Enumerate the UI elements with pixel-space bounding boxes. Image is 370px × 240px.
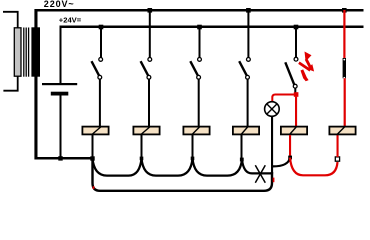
connector square on terminal6 lower lead bbox=[335, 157, 339, 161]
switch S3 blade (open) bbox=[190, 61, 198, 76]
wire secondary lead top bbox=[34, 9, 37, 28]
junction dot branch5 on +24V rail bbox=[294, 25, 299, 30]
terminal block X3 bbox=[183, 127, 209, 135]
wire +24V rail bbox=[60, 26, 364, 29]
wire red drooping link terminal5-terminal6 bbox=[290, 158, 338, 176]
wire bottom DC common rail bbox=[35, 157, 94, 160]
wire terminal 2 lower bbox=[141, 135, 143, 158]
wire switch S5 stub to red node bbox=[294, 88, 296, 93]
wire branch4 upper (crosses +24V rail) bbox=[247, 10, 249, 57]
wire terminal 5 lower (red) bbox=[289, 135, 291, 157]
wire battery bottom lead bbox=[60, 96, 62, 159]
switch S6 top contact bbox=[343, 59, 345, 61]
transformer T1 secondary winding bbox=[31, 27, 40, 76]
switch S5 bottom contact bbox=[293, 84, 297, 88]
switch S1 blade (open) bbox=[92, 61, 100, 76]
wire long bottom return (terminal1 junction to lamp) bbox=[93, 159, 273, 191]
wire drooping link terminal2-terminal3 bbox=[142, 158, 193, 176]
wire switch S3 to terminal 3 bbox=[198, 79, 200, 126]
break mark X on broken wire bbox=[255, 165, 265, 183]
junction dot branch1 on +24V rail bbox=[99, 25, 104, 30]
switch S2 bottom contact bbox=[147, 75, 151, 79]
stray red mark on lamp lower lead bbox=[273, 178, 275, 183]
svg-text:220V~: 220V~ bbox=[44, 0, 75, 9]
wire branch1 upper bbox=[100, 27, 102, 57]
junction dot terminal3 split bbox=[191, 157, 195, 161]
wire 220V rail bbox=[35, 9, 364, 12]
junction dot terminal2 split bbox=[140, 157, 144, 161]
terminal block X6 bbox=[329, 127, 355, 135]
switch S2 blade (open) bbox=[141, 61, 149, 76]
switch S1 top contact bbox=[99, 58, 103, 62]
junction dot battery to common rail bbox=[58, 156, 62, 160]
terminal block X2 bbox=[133, 127, 159, 135]
junction dot branch6 on 220V rail bbox=[342, 8, 347, 13]
wire battery top lead bbox=[60, 26, 62, 84]
terminal block X1 bbox=[82, 127, 108, 135]
switch S3 bottom contact bbox=[197, 75, 201, 79]
wire switch S4 to terminal 4 bbox=[247, 79, 249, 126]
wire red node to lamp top bbox=[272, 95, 295, 102]
svg-text:+24V=: +24V= bbox=[59, 15, 82, 24]
wire secondary lead bottom bbox=[34, 77, 37, 160]
wire terminal 6 lower (red) bbox=[337, 135, 339, 157]
switch S5 blade (open, arcing) bbox=[285, 62, 294, 85]
wire branch6 upper (red, crosses +24V rail) bbox=[343, 10, 345, 58]
junction dot terminal4 split bbox=[240, 158, 244, 162]
terminal block X4 bbox=[233, 127, 259, 135]
switch S4 top contact bbox=[247, 58, 251, 62]
battery G1 negative plate bbox=[51, 92, 69, 96]
transformer T1 core lamination lines bbox=[23, 28, 25, 77]
switch S1 bottom contact bbox=[98, 75, 102, 79]
spark flashover arrow at S5 (red) bbox=[298, 52, 314, 82]
wire drooping link terminal3-terminal4 bbox=[193, 158, 243, 176]
junction dot terminal5 split bbox=[288, 156, 292, 160]
transformer T1 primary winding bbox=[14, 28, 21, 76]
wire switch S1 to terminal 1 bbox=[99, 79, 101, 126]
wire switch S2 to terminal 2 bbox=[148, 79, 150, 126]
battery G1 positive plate bbox=[42, 83, 77, 85]
switch S3 top contact bbox=[198, 58, 202, 62]
wire terminal 1 lower bbox=[92, 135, 94, 158]
switch S4 bottom contact bbox=[246, 75, 250, 79]
lamp H1 bbox=[265, 102, 280, 117]
junction dot branch3 on +24V rail bbox=[197, 25, 202, 30]
wire branch5 upper bbox=[295, 27, 297, 57]
junction dot terminal1 / common bbox=[90, 156, 94, 160]
wire terminal 4 lower bbox=[241, 135, 243, 159]
junction dot branch2 on 220V rail bbox=[148, 8, 153, 13]
wire branch3 upper bbox=[199, 27, 201, 57]
wire branch6 switch to terminal 6 (red) bbox=[344, 78, 346, 126]
switch S2 top contact bbox=[148, 58, 152, 62]
wire 220V input stub bottom bbox=[3, 77, 17, 91]
wire 220V input stub top bbox=[3, 12, 18, 28]
wire red node down to terminal 5 bbox=[295, 97, 297, 127]
switch S4 blade (open) bbox=[239, 61, 247, 76]
wire branch2 upper (crosses +24V rail) bbox=[149, 10, 151, 57]
stray red mark at return-wire bend bbox=[93, 186, 95, 189]
wire drooping link terminal1-terminal2 bbox=[93, 158, 142, 176]
terminal block X5 bbox=[281, 127, 307, 135]
switch S6 bottom contact bbox=[343, 77, 345, 79]
wire drooping link terminal4 to lamp node (broken at X) bbox=[242, 160, 272, 174]
red node junction dot below S5 bbox=[294, 92, 299, 97]
wire terminal5 split to lamp node (black) bbox=[273, 158, 290, 167]
wire terminal 3 lower bbox=[192, 135, 194, 158]
junction dot branch4 on 220V rail bbox=[246, 8, 251, 13]
wire lamp lower lead bbox=[271, 116, 273, 174]
switch S5 top contact bbox=[294, 57, 298, 61]
switch S6 closed blade bbox=[343, 58, 346, 78]
